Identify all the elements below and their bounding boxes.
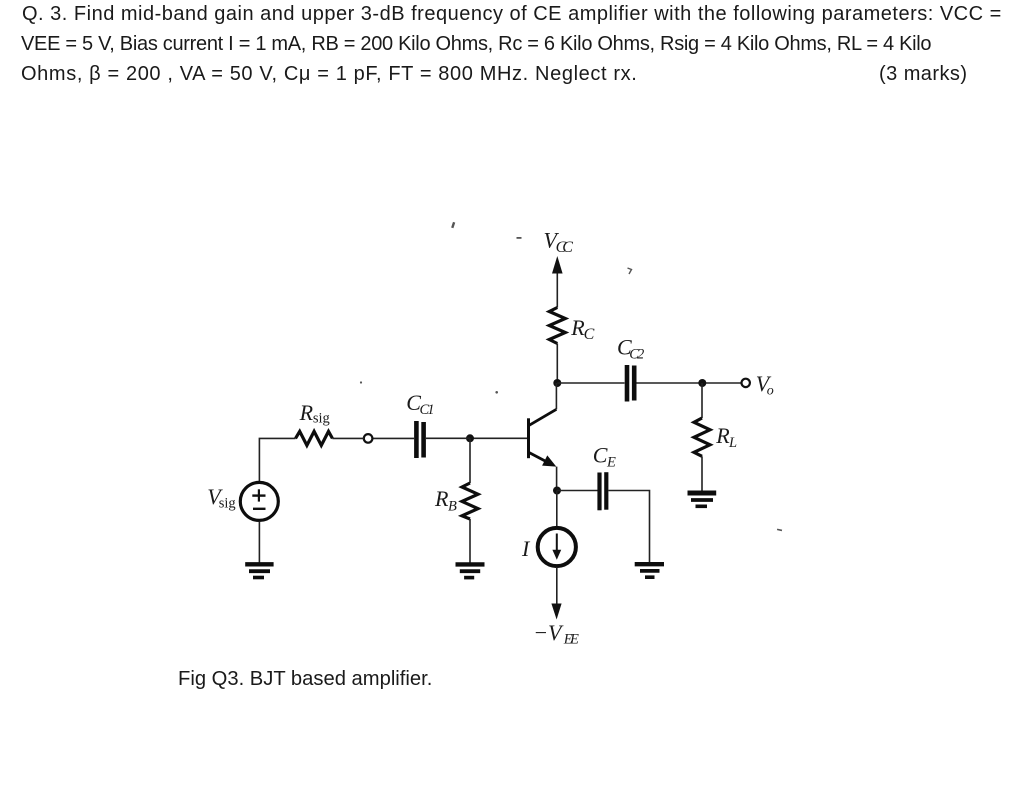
wire Vsig corner to Rsig [259,438,295,481]
capacitor CC2 [627,365,634,402]
svg-text:sig: sig [219,495,236,511]
transistor Q1 [529,409,557,466]
CC2 label [617,334,644,362]
svg-text:E: E [606,454,616,470]
figure caption [178,669,432,689]
wire emitter node to current source [556,491,558,528]
wire Vsig to ground [258,521,260,562]
ground (RL) [688,493,717,506]
marks label [879,64,968,84]
svg-text:L: L [728,435,737,451]
node base junction [466,434,474,442]
svg-text:CC: CC [556,239,574,256]
svg-text:I: I [521,536,531,561]
node emitter junction [553,487,561,495]
I label [521,536,531,561]
wire open terminal to CC1 [373,437,415,439]
svg-text:sig: sig [313,410,330,426]
question text line 3 [21,64,637,84]
wire CC2 to output node [637,382,742,384]
VCC supply arrow [552,256,563,308]
wire emitter node to CE [557,490,598,492]
wire emitter vertical [556,467,558,491]
ground (RB) [456,564,485,577]
terminal Vo [742,379,750,387]
capacitor CC1 [416,421,423,458]
wire output node to RL [701,383,703,418]
VCC label [544,228,574,257]
svg-text:C1: C1 [420,402,435,418]
wire collector vertical [555,383,557,409]
CC1 label [406,390,434,418]
RB value label [434,486,457,515]
Vo label [756,371,774,399]
Rsig value label [299,400,330,426]
svg-text:R: R [715,423,730,448]
wire base [470,437,527,439]
Vsig label [207,484,235,512]
source Vsig [240,482,278,520]
resistor RC [549,308,565,344]
svg-text:C2: C2 [629,347,644,363]
CE label [593,443,616,471]
svg-text:EE: EE [563,632,579,648]
resistor RB [462,483,478,519]
terminal (open node after Rsig) [364,434,373,443]
svg-text:C: C [584,326,595,343]
wire CE to right corner [609,491,650,563]
question text line 2 [21,34,931,54]
wire RC to collector node [556,344,558,384]
wire base node to RB [469,438,471,483]
node collector junction [553,379,561,387]
wire CC1 to base node [426,437,470,439]
wire collector node to CC2 [557,382,624,384]
svg-text:−V: −V [533,620,564,645]
wire RB to ground [469,519,471,563]
-VEE label [533,620,579,648]
svg-text:B: B [448,499,457,515]
wire Rsig to terminal [332,437,364,439]
svg-text:R: R [299,400,314,425]
scan speckles [360,222,782,531]
svg-text:o: o [767,384,774,399]
wire RL to ground [701,456,703,491]
capacitor CE [600,472,607,510]
ground (Vsig) [245,564,273,577]
ground (CE) [635,564,664,577]
svg-text:C: C [593,443,608,468]
wire current source to -VEE arrow [556,567,558,605]
question text line 1 [22,4,1002,24]
RC value label [570,315,594,343]
resistor RL [694,418,710,456]
node output junction [698,379,706,387]
current source I [538,528,576,566]
RL value label [715,423,737,451]
arrow to -VEE [551,604,561,620]
svg-text:R: R [434,486,449,511]
resistor Rsig [296,431,333,445]
